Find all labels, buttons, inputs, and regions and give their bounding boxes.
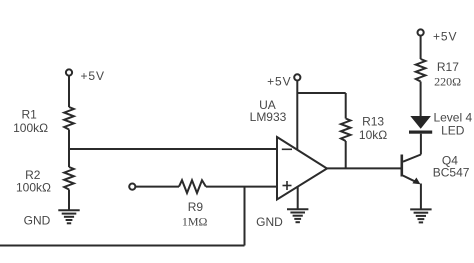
svg-text:100kΩ: 100kΩ <box>16 181 51 195</box>
transistor Q4 BC547 (base bar) <box>400 155 403 177</box>
power terminal +5V (LED supply) <box>418 29 424 35</box>
op-amp UA LM933 (comparator triangle) <box>277 137 327 200</box>
input terminal (open circle, non-inverting input source) <box>129 184 135 190</box>
wire: input terminal to R9 left <box>136 186 180 188</box>
transistor emitter arrowhead <box>412 178 420 185</box>
ground (emitter, right) <box>410 209 431 222</box>
resistor R9 <box>179 180 206 193</box>
wire: R2 bottom to ground <box>68 190 70 211</box>
power terminal +5V (left divider supply) <box>66 69 72 75</box>
wire: +5V terminal to R1 top <box>68 76 70 107</box>
wire: op-amp output to Q4 base <box>327 167 401 169</box>
resistor R17 <box>416 59 426 82</box>
wire: bottom feedback rail <box>0 245 245 247</box>
ground (left, below R2) <box>58 210 79 223</box>
op-amp inverting input marker (-) <box>282 148 292 150</box>
transistor emitter stroke <box>403 176 417 183</box>
resistor R1 <box>64 107 74 130</box>
wire: +5V terminal to R17 top <box>420 36 422 59</box>
wire: +5V terminal down to op-amp V+ pin <box>296 81 298 150</box>
svg-text:100kΩ: 100kΩ <box>13 121 48 135</box>
svg-text:R13: R13 <box>362 114 384 128</box>
svg-text:1MΩ: 1MΩ <box>182 214 208 228</box>
svg-text:+5V: +5V <box>81 69 105 83</box>
wire: R9 right to op-amp non-inverting input <box>206 186 277 188</box>
svg-text:GND: GND <box>256 215 283 229</box>
svg-text:R9: R9 <box>188 200 204 214</box>
svg-text:+5V: +5V <box>433 30 457 44</box>
wire: R13 top lead <box>345 93 347 119</box>
ground (op-amp) <box>287 209 308 222</box>
wire: op-amp ground pin <box>297 187 299 210</box>
node A: divider junction, wire to op-amp inverting input <box>69 148 277 150</box>
svg-text:Level 4: Level 4 <box>433 110 472 124</box>
resistor R13 <box>341 119 351 142</box>
LED cathode bar <box>409 131 432 134</box>
op-amp non-inverting input marker (+) <box>283 181 292 190</box>
svg-text:LM933: LM933 <box>250 110 287 124</box>
svg-text:220Ω: 220Ω <box>434 75 461 89</box>
resistor R2 <box>64 167 74 190</box>
svg-text:+5V: +5V <box>267 75 291 89</box>
wire: feedback rail vertical at node B <box>244 187 246 246</box>
wire: R17 bottom to LED anode <box>420 82 422 117</box>
svg-text:R1: R1 <box>22 108 38 122</box>
svg-text:GND: GND <box>24 214 51 228</box>
svg-text:BC547: BC547 <box>433 165 470 179</box>
wire: LED cathode to Q4 collector <box>420 134 422 155</box>
power terminal +5V (op-amp supply) <box>294 74 300 80</box>
svg-text:10kΩ: 10kΩ <box>359 128 387 142</box>
wire: R13 bottom lead to output node <box>345 141 347 168</box>
transistor collector stroke <box>403 155 421 162</box>
svg-text:LED: LED <box>441 124 465 138</box>
wire: R1 bottom to R2 top through node A <box>68 130 70 168</box>
wire: Q4 emitter to ground <box>420 184 422 210</box>
LED (Level 4 LED) anode triangle <box>410 116 431 129</box>
wire: +5V branch to R13 top <box>297 92 345 94</box>
svg-text:R17: R17 <box>437 60 459 74</box>
